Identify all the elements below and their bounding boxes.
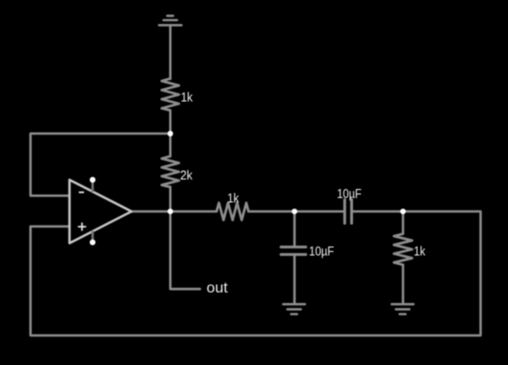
power rail symbol (inverted ground, top): [159, 16, 181, 25]
ground (under R4): [392, 304, 414, 314]
resistor R2 2k (vertical): [162, 156, 179, 187]
wire C2 to ground: [293, 256, 295, 304]
op-amp minus sign: [79, 191, 84, 193]
ground (under C2): [283, 304, 305, 314]
node D (R4 junction): [400, 209, 406, 215]
wire node to C2: [293, 211, 295, 245]
op-amp power pin dot (bottom): [90, 239, 96, 245]
wire R1 to R2: [169, 110, 171, 156]
op-amp power pin dot (top): [90, 177, 96, 183]
wire node to R4: [402, 211, 404, 233]
op-amp plus sign: [78, 223, 86, 231]
resistor R4 1k (vertical, right): [394, 234, 412, 265]
wire power to R1: [169, 25, 171, 79]
resistor R1 1k (vertical, top): [162, 79, 179, 111]
wire out stub: [170, 211, 200, 289]
node C (C2 junction): [292, 209, 298, 215]
svg-text:10µF: 10µF: [309, 245, 334, 259]
wire feedback: node to opamp minus input: [31, 134, 171, 196]
wire opamp plus input to bottom loop to right rail: [31, 211, 481, 335]
node A (feedback junction): [168, 131, 174, 137]
svg-text:1k: 1k: [414, 244, 426, 258]
svg-text:out: out: [207, 280, 229, 297]
resistor R3 1k (horizontal): [217, 203, 249, 220]
wire R3 to C1: [249, 210, 344, 212]
wire opamp output row: [132, 210, 217, 212]
wire R2 to output row: [169, 187, 171, 211]
svg-text:1k: 1k: [227, 191, 239, 205]
capacitor C1 10uF (series): [345, 200, 352, 224]
svg-text:2k: 2k: [180, 169, 193, 183]
svg-text:10µF: 10µF: [337, 187, 362, 201]
wire R4 to ground: [402, 265, 404, 304]
svg-text:1k: 1k: [181, 91, 194, 105]
capacitor C2 10uF (shunt): [281, 247, 306, 255]
op-amp power pin stubs: [91, 180, 93, 242]
node B (output junction): [168, 209, 174, 215]
wire C1 to node: [353, 210, 403, 212]
op-amp U1: [70, 180, 132, 243]
